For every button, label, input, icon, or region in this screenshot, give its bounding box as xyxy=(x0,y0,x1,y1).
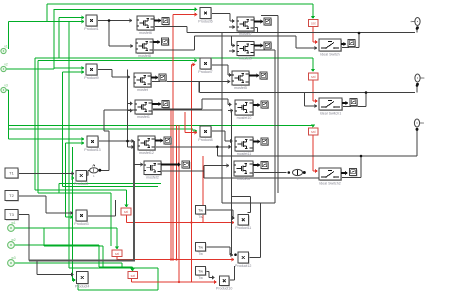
constant T3 xyxy=(5,210,19,221)
junction red x191.4 y222.5 xyxy=(190,221,192,223)
svg-text:Product4: Product4 xyxy=(75,285,89,289)
svg-text:w1: w1 xyxy=(11,221,15,225)
scope switch1 display xyxy=(348,40,356,48)
wire dark m3 out xyxy=(151,81,199,83)
wire dark m2 to scope xyxy=(153,40,161,44)
svg-text:v3: v3 xyxy=(4,84,8,88)
wire dark y110 xyxy=(104,109,222,111)
wire green input5 path xyxy=(15,245,135,272)
wire dark y156 to out3 xyxy=(217,147,417,156)
mosfet subsystem mosfet12 xyxy=(138,136,157,155)
scope display11 xyxy=(261,138,269,146)
svg-text:Product1: Product1 xyxy=(84,27,98,31)
mosfet subsystem mosfet2 xyxy=(144,161,163,180)
svg-text:mosfet6: mosfet6 xyxy=(139,31,152,35)
mosfet subsystem mosfet7 xyxy=(237,17,256,36)
wire red vert x203 xyxy=(202,156,204,223)
junction out3 xyxy=(416,128,419,131)
switch Ideal Switch xyxy=(319,39,342,56)
svg-text:Product8: Product8 xyxy=(198,138,212,142)
wire dark out3 drop xyxy=(416,130,418,157)
svg-text:T2: T2 xyxy=(9,193,14,198)
wire dark switch2 to scope xyxy=(342,101,349,105)
junction out2 xyxy=(416,84,419,87)
wire red vert x173 xyxy=(172,14,174,259)
svg-text:Ideal Switch2: Ideal Switch2 xyxy=(319,181,340,185)
wire dark vert x222 xyxy=(221,33,223,203)
product Product13 xyxy=(84,136,100,152)
wire green vert x72.5 xyxy=(72,147,74,281)
input port In2 xyxy=(1,63,8,72)
junction bus2 branch xyxy=(365,91,368,94)
wire green band y58 xyxy=(35,57,313,59)
svg-text:Product10: Product10 xyxy=(216,287,232,291)
wire dark m3 to m7 lower xyxy=(199,80,230,84)
svg-text:Product7: Product7 xyxy=(198,70,212,74)
wire dark vert x260.5 xyxy=(260,203,262,258)
wire dark Product10 out xyxy=(229,266,235,280)
limiter redB xyxy=(128,272,138,279)
wire dark m4 to scope xyxy=(152,102,162,106)
scope switch2 display xyxy=(350,99,358,107)
svg-text:w3: w3 xyxy=(11,256,15,260)
wire dark m3 to scope xyxy=(151,75,159,79)
product Product12 xyxy=(235,252,251,268)
junction out1 xyxy=(416,27,419,30)
wire green y129 bus xyxy=(8,128,193,130)
scope display7 xyxy=(264,18,272,26)
product Product8 xyxy=(198,126,212,142)
wire green input4 to redA xyxy=(15,228,119,250)
wire dark m9 to scope xyxy=(249,73,260,77)
wire dark switch2 lower input xyxy=(305,93,318,109)
wire green y183.5 xyxy=(59,183,161,185)
wire green input2 horiz y69 xyxy=(6,68,54,70)
wire dark Product1 out xyxy=(97,18,133,22)
wire dark bus to Product4 xyxy=(37,261,74,277)
wire dark m5 out to m11 lower xyxy=(155,145,232,149)
svg-text:v1: v1 xyxy=(4,45,8,49)
junction m5 out xyxy=(216,146,219,149)
svg-text:mosfet8: mosfet8 xyxy=(138,54,151,58)
svg-text:v2: v2 xyxy=(4,63,8,67)
wire dark out1 drop xyxy=(416,28,418,33)
wire dark vert x109 xyxy=(108,21,110,47)
product Product7 xyxy=(198,58,212,74)
wire dark m7 to scope xyxy=(254,19,264,23)
junction red x176.5 y259.5 xyxy=(175,258,177,260)
wire dark h y196.5 xyxy=(232,196,251,198)
wire stub m10 port2 xyxy=(228,108,234,112)
divide oval1 xyxy=(90,165,102,178)
scope switch3 display xyxy=(350,169,358,177)
svg-text:Product6: Product6 xyxy=(198,20,212,24)
svg-text:mosfet12: mosfet12 xyxy=(139,151,154,155)
wire green top bus y4 xyxy=(47,3,313,5)
wire dark into mosfet2 gate xyxy=(134,162,144,166)
mosfet subsystem mosfet8 xyxy=(136,39,155,58)
scope display4 xyxy=(162,101,170,109)
input port In1 xyxy=(1,45,8,54)
product Product2 xyxy=(74,170,88,186)
wire green sat3 drop xyxy=(311,125,315,128)
constant T1 xyxy=(5,168,19,179)
wire dark into mosfet2 xyxy=(109,44,134,48)
wire dark m2 out xyxy=(153,49,195,51)
svg-text:mosfet: mosfet xyxy=(137,88,148,92)
svg-text:T1: T1 xyxy=(9,171,14,176)
switch Ideal Switch2 xyxy=(319,168,342,185)
wire dark vert x127.5 xyxy=(127,70,129,148)
svg-text:Product12: Product12 xyxy=(235,264,251,268)
scope display1 xyxy=(162,18,170,26)
wire red redA drop xyxy=(116,256,118,260)
wire dark oval1 up xyxy=(101,110,110,170)
wire green vert x69 xyxy=(68,22,70,268)
product Product10 xyxy=(216,276,232,291)
wire dark Product6 out xyxy=(212,14,236,24)
wire dark T3 to bus xyxy=(18,215,29,261)
wire green vert x65.5 xyxy=(65,143,67,217)
svg-text:sat: sat xyxy=(131,274,135,278)
output port out1 xyxy=(411,18,421,30)
scope display9 xyxy=(260,72,268,80)
saturation sat3 xyxy=(309,128,319,135)
switch Ideal Switch1 xyxy=(319,98,343,115)
input port In6 xyxy=(8,256,16,267)
wire red vert x176.5 xyxy=(176,125,178,260)
wire green loop under Product4 xyxy=(78,268,158,290)
svg-text:mosfet11: mosfet11 xyxy=(237,152,252,156)
wire dark m5 to scope xyxy=(155,138,164,142)
svg-text:mosfet1: mosfet1 xyxy=(137,115,150,119)
scope display10 xyxy=(261,101,269,109)
wire dark row1 branch to switch right port xyxy=(342,33,359,48)
svg-text:sat: sat xyxy=(311,130,316,134)
svg-text:sat: sat xyxy=(311,22,316,26)
wire green y139 into Product13 xyxy=(9,137,85,141)
wire green vert x47 xyxy=(46,4,48,22)
wire green y143 into Product13 xyxy=(66,141,85,145)
mosfet subsystem mosfet xyxy=(134,73,153,92)
svg-text:sat: sat xyxy=(311,75,316,79)
svg-text:mosfet9: mosfet9 xyxy=(239,57,252,61)
wire dark m10 to oval2 xyxy=(253,172,287,174)
wire green vert x111 xyxy=(110,193,112,246)
wire red vert x191.4 xyxy=(190,65,192,282)
wire dark m12 to scope xyxy=(253,163,261,167)
wire dark Product3 out xyxy=(87,200,115,216)
constant Tw3 xyxy=(196,267,207,281)
wire green into Product3b xyxy=(66,215,74,219)
wire green input6 path xyxy=(15,263,122,267)
product Product11 xyxy=(235,215,251,231)
svg-text:Ideal Switch1: Ideal Switch1 xyxy=(320,111,341,115)
svg-text:Product11: Product11 xyxy=(235,226,251,230)
wire dark m6 to m3c2 upper xyxy=(204,163,230,170)
svg-text:mosfet7: mosfet7 xyxy=(239,32,252,36)
wire red vert x185 xyxy=(184,112,186,133)
wire dark into mosfet12 b xyxy=(128,145,135,149)
wire dark vert x278 xyxy=(277,16,279,194)
wire red into Product6 xyxy=(173,12,198,16)
wire dark Product7 out xyxy=(212,65,233,77)
wire green into Product9 b xyxy=(63,70,85,74)
mosfet subsystem mosfet10 xyxy=(235,100,255,120)
junction red x173 y259.5 xyxy=(172,258,174,260)
svg-text:Product13: Product13 xyxy=(84,148,100,152)
mosfet subsystem mosfet3 xyxy=(234,161,255,181)
limiter red1 xyxy=(121,208,131,215)
wire green vert x59 xyxy=(58,184,60,194)
svg-text:T3: T3 xyxy=(9,212,14,217)
divide oval2 xyxy=(293,169,306,180)
product Product1 xyxy=(84,15,98,31)
wire green vert x38 xyxy=(37,61,39,194)
svg-text:Tw: Tw xyxy=(198,268,203,273)
wire red vert x171 xyxy=(170,110,172,260)
wire dark oval1 link xyxy=(86,170,89,175)
wire green y268 join xyxy=(69,267,158,269)
wire red sat3 to switch3 xyxy=(313,136,318,174)
wire green into Product8 xyxy=(193,129,198,133)
wire red x185 into Product8 xyxy=(185,130,198,134)
scope display12 xyxy=(261,162,269,170)
output port out3 xyxy=(414,119,424,131)
wire dark h y203 xyxy=(222,202,275,204)
wire dark Tw2 to Product12 xyxy=(205,247,234,257)
wire dark Tw1 out xyxy=(205,210,235,220)
wire dark m4 out to m10 xyxy=(152,99,232,109)
wire dark thick y260.5 xyxy=(29,260,135,262)
wire green input3 stem xyxy=(6,90,9,139)
limiter redA xyxy=(112,250,122,257)
constant Tw1 xyxy=(196,206,207,220)
wire green vert x62 xyxy=(62,72,64,187)
scope display5 xyxy=(164,137,172,145)
wire dark row1 second y35.8 xyxy=(195,36,318,50)
svg-text:Tw: Tw xyxy=(198,276,203,280)
wire dark vert x231.5 xyxy=(231,110,233,255)
product Product4 xyxy=(75,272,89,289)
svg-text:Tw: Tw xyxy=(198,244,203,249)
wire dark m11 to scope xyxy=(253,139,261,143)
wire green y9 bus xyxy=(54,7,198,11)
wire green band y60.5 xyxy=(38,58,198,62)
wire dark T1 to Product2 xyxy=(18,171,75,175)
wire green y193 xyxy=(38,192,111,194)
saturation sat1 xyxy=(309,20,319,27)
wire dark m6 to scope xyxy=(161,162,181,166)
junction x127.5 y141 xyxy=(126,140,129,143)
scope display8 xyxy=(264,42,272,50)
wire dark row3 branch to switch right port xyxy=(342,156,361,177)
wire dark Product13 out xyxy=(98,139,135,143)
wire stub m9 port2 xyxy=(229,49,236,53)
wire green y186.5 xyxy=(63,186,159,188)
junction oval2 in xyxy=(288,171,291,174)
mosfet subsystem mosfet5 xyxy=(232,71,251,90)
wire green sat2 drop xyxy=(311,58,315,72)
wire dark x278 top xyxy=(261,15,278,17)
svg-text:Product3: Product3 xyxy=(74,222,88,226)
junction bus3 branch xyxy=(360,155,363,158)
wire green vert x59 xyxy=(58,18,60,59)
svg-text:mosfet2: mosfet2 xyxy=(146,176,159,180)
junction dark Product12 top in xyxy=(234,253,237,256)
wire green vert x103 xyxy=(102,246,104,268)
constant T2 xyxy=(5,191,19,202)
scope display2 xyxy=(162,38,170,46)
wire green into Product9 a xyxy=(54,66,85,70)
wire stub m7 port2 xyxy=(229,25,236,29)
wire dark m6 out xyxy=(161,170,204,172)
wire red sat1 to switch1 xyxy=(313,27,318,45)
input port In4 xyxy=(8,221,16,232)
wire dark into mosfet4 b xyxy=(128,108,134,112)
wire dark vert x250.5 Product11 out xyxy=(248,197,251,213)
wire green stem input1 xyxy=(8,22,10,50)
product Product6 xyxy=(198,8,212,24)
wire dark m1 out jog xyxy=(154,27,187,33)
svg-text:mosfet5: mosfet5 xyxy=(234,86,247,90)
wire green into Product3 second input xyxy=(72,176,75,180)
wire green y21.5 into Product1 xyxy=(9,19,85,23)
junction bus1 branch xyxy=(358,32,361,35)
wire dark Tw3 to Product10 xyxy=(206,272,215,280)
wire dark Product12 out xyxy=(249,257,261,259)
wire red redB out xyxy=(132,279,218,285)
wire dark row1 bus y33 xyxy=(187,32,415,34)
wire green vert x44 xyxy=(43,228,45,246)
constant Tw2 xyxy=(196,243,207,257)
wire green y190 to red limiter xyxy=(35,190,129,208)
input port In3 xyxy=(1,84,8,93)
junction red x179 y282 xyxy=(178,281,180,283)
wire dark Product9 out xyxy=(97,70,131,80)
scope display3 xyxy=(159,74,167,82)
wire dark into mosfet4 a xyxy=(128,101,134,105)
scope display6 xyxy=(182,161,191,169)
wire dark thick x134 xyxy=(133,141,135,261)
wire dark m5c2 lower drop xyxy=(254,28,258,33)
svg-text:Product9: Product9 xyxy=(84,76,98,80)
product Product3 xyxy=(74,210,88,226)
wire red y259.5 bus xyxy=(117,257,235,261)
svg-text:Ideal Switch: Ideal Switch xyxy=(320,52,339,56)
svg-text:Tw: Tw xyxy=(198,215,203,219)
svg-text:sat: sat xyxy=(115,252,119,256)
wire dark out2 drop xyxy=(416,85,418,93)
input port In5 xyxy=(8,238,16,249)
saturation sat2 xyxy=(309,73,319,80)
wire dark switch3 to scope xyxy=(341,171,348,175)
svg-text:mosfet3: mosfet3 xyxy=(237,177,250,181)
wire red limiter1 out xyxy=(127,215,235,225)
wire dark m10 to scope xyxy=(253,103,261,107)
wire green vert x35 xyxy=(34,58,36,190)
wire dark Product8 out xyxy=(212,131,234,143)
wire dark row2 branch to switch right port xyxy=(343,93,366,107)
mosfet subsystem mosfet11 xyxy=(235,137,255,156)
wire green y125.5 bus xyxy=(8,125,313,127)
product Product9 xyxy=(84,64,98,80)
mosfet subsystem mosfet1 xyxy=(135,100,154,119)
mosfet subsystem mosfet9 xyxy=(237,42,256,61)
wire dark m1 to scope xyxy=(154,18,162,22)
wire dark branch to m9 upper xyxy=(232,36,236,48)
output port out2 xyxy=(415,74,425,86)
wire dark row3 bus y178 xyxy=(204,171,320,178)
svg-text:mosfet10: mosfet10 xyxy=(237,116,252,120)
wire dark row2 bus y92.5 xyxy=(199,82,415,93)
wire dark T2 to Product3 xyxy=(18,196,74,215)
wire green vert x54 xyxy=(53,9,55,69)
mosfet subsystem mosfet6 xyxy=(137,16,156,35)
wire red vert x179 xyxy=(178,125,180,282)
wire green into Product4 second input xyxy=(73,278,77,282)
junction red x171 y259.5 xyxy=(170,258,172,260)
svg-text:Tw: Tw xyxy=(198,207,203,212)
wire green sat1 drop xyxy=(311,4,315,19)
svg-text:sat: sat xyxy=(124,210,128,214)
svg-text:Tw: Tw xyxy=(198,252,203,256)
wire red into Product7 xyxy=(191,63,195,67)
wire dark vert x275 xyxy=(254,50,275,203)
junction dark x109 y20.5 xyxy=(108,19,111,22)
svg-text:w2: w2 xyxy=(11,238,15,242)
svg-text:Product2: Product2 xyxy=(74,182,88,186)
wire dark m8 to scope xyxy=(254,43,264,47)
wire dark switch1 to scope xyxy=(341,42,347,46)
wire green y246 xyxy=(44,245,103,247)
wire red sat2 to switch2 xyxy=(313,81,318,104)
wire green y17.5 into Product1 xyxy=(59,15,85,19)
